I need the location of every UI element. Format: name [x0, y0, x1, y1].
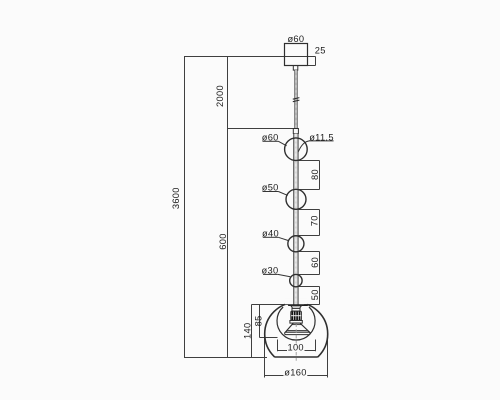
svg-text:600: 600: [218, 233, 228, 249]
svg-text:ø60: ø60: [262, 132, 279, 142]
svg-text:2000: 2000: [215, 85, 225, 107]
svg-text:ø60: ø60: [287, 34, 304, 44]
svg-text:ø160: ø160: [284, 368, 306, 378]
svg-text:ø30: ø30: [262, 266, 279, 276]
svg-text:60: 60: [310, 257, 320, 268]
svg-text:80: 80: [310, 169, 320, 180]
svg-text:85: 85: [254, 315, 264, 326]
svg-text:140: 140: [242, 323, 252, 339]
svg-text:100: 100: [287, 343, 303, 353]
svg-text:ø50: ø50: [262, 183, 279, 193]
svg-text:3600: 3600: [171, 187, 181, 209]
svg-text:70: 70: [310, 215, 320, 226]
svg-text:ø40: ø40: [262, 229, 279, 239]
svg-text:ø11.5: ø11.5: [309, 132, 334, 142]
svg-text:50: 50: [310, 289, 320, 300]
svg-text:25: 25: [315, 45, 326, 55]
